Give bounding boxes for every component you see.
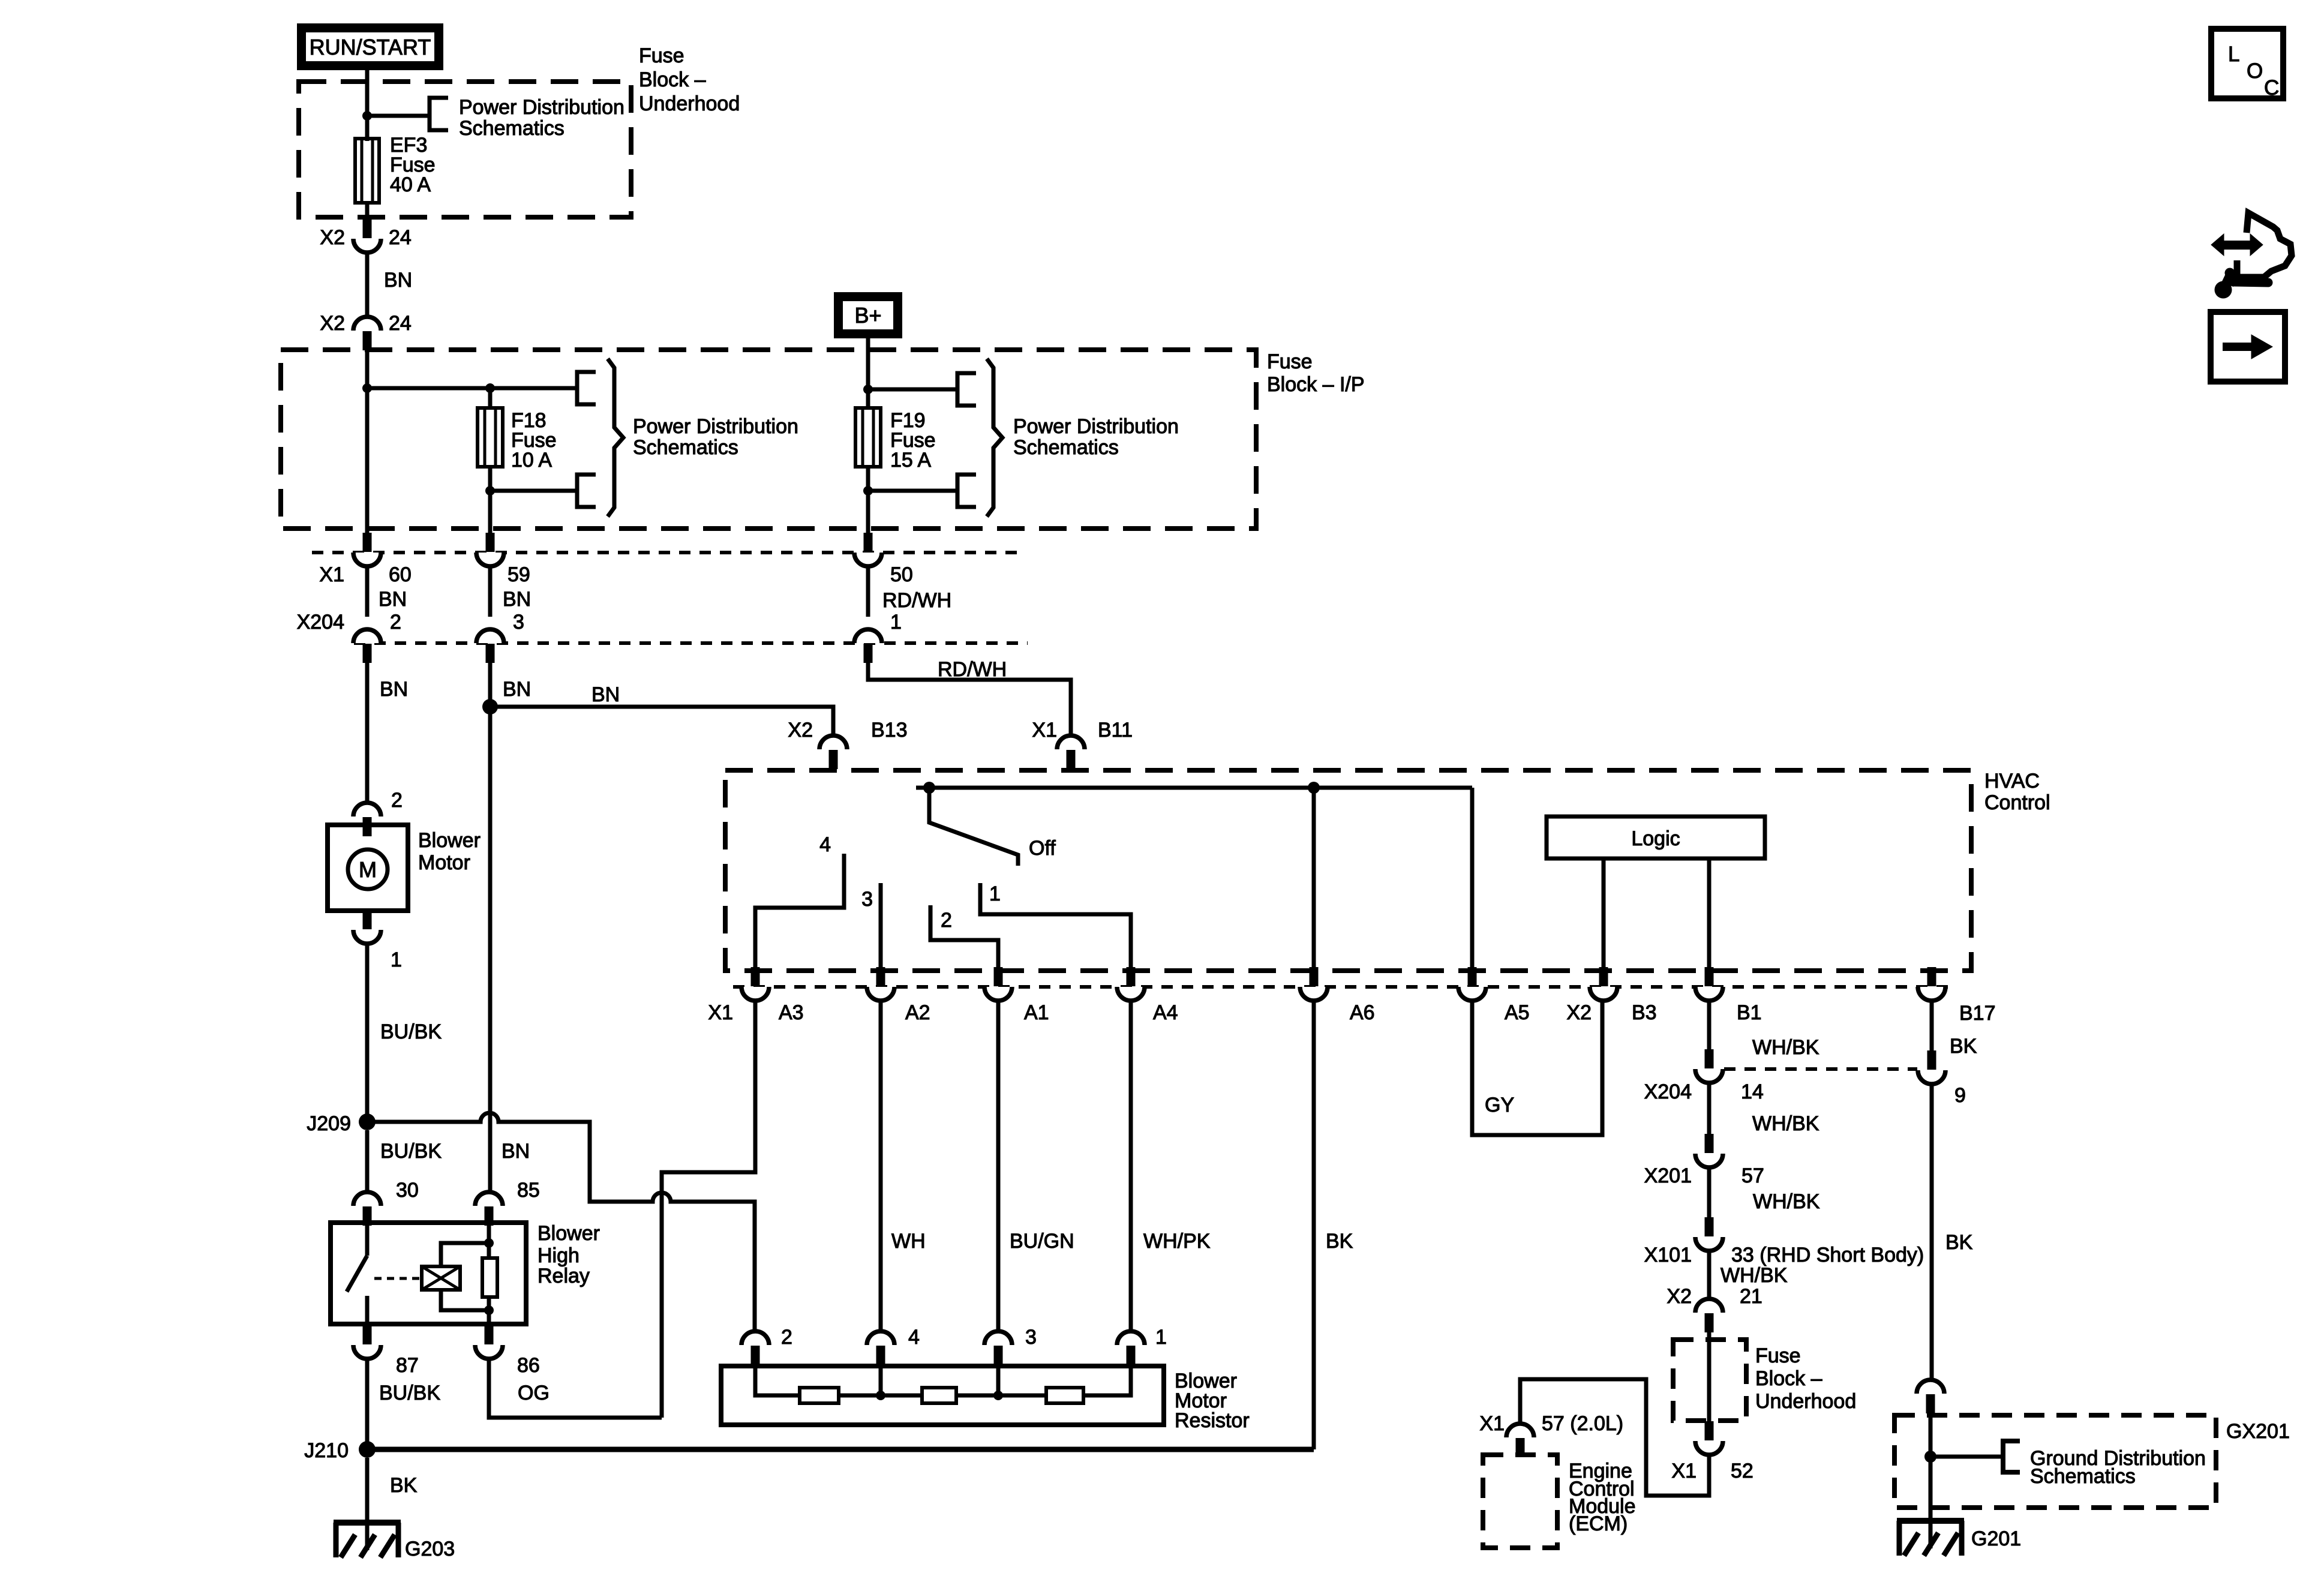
wire into fuse block I/P bbox=[365, 350, 370, 388]
svg-text:BU/BK: BU/BK bbox=[380, 1020, 442, 1043]
svg-text:1: 1 bbox=[1155, 1326, 1167, 1349]
resistor internal wiring bbox=[755, 1365, 800, 1395]
node BN branch to B13 bbox=[482, 699, 498, 715]
wire BN from X204-3 down to relay 85 bbox=[488, 663, 493, 1193]
svg-text:40 A: 40 A bbox=[390, 173, 431, 196]
HVAC control dashed box bbox=[725, 770, 1971, 971]
wire RD/WH to HVAC B11 bbox=[868, 663, 1071, 737]
wire RUN/START to EF3 bbox=[365, 66, 370, 141]
svg-text:60: 60 bbox=[389, 563, 412, 586]
blower motor resistor box bbox=[721, 1366, 1164, 1425]
wire WH/BK B1 to X204-14 bbox=[1707, 1001, 1712, 1050]
switch wiper to Off bbox=[929, 788, 1018, 866]
svg-text:2: 2 bbox=[390, 611, 401, 634]
svg-text:Relay: Relay bbox=[538, 1265, 590, 1287]
svg-text:L: L bbox=[2228, 43, 2239, 66]
wire to X2-21 bbox=[1707, 1251, 1712, 1300]
svg-text:BN: BN bbox=[502, 1140, 530, 1163]
svg-text:X1: X1 bbox=[1032, 719, 1057, 742]
svg-text:Motor: Motor bbox=[418, 851, 470, 874]
svg-text:57 (2.0L): 57 (2.0L) bbox=[1542, 1412, 1623, 1435]
connector X204-1 bbox=[854, 629, 882, 643]
svg-text:1: 1 bbox=[391, 948, 402, 971]
wire left column through I/P box bbox=[365, 388, 370, 535]
svg-text:A3: A3 bbox=[779, 1001, 804, 1024]
node pin 3 bbox=[996, 1365, 1001, 1395]
bracket F18 upper bbox=[577, 372, 596, 404]
svg-text:Fuse: Fuse bbox=[639, 44, 684, 67]
HVAC bottom connector row dotted line bbox=[733, 985, 1948, 989]
svg-text:3: 3 bbox=[513, 611, 524, 634]
svg-text:59: 59 bbox=[508, 563, 530, 586]
wire inside GX201 bbox=[1929, 1413, 1933, 1524]
svg-text:2: 2 bbox=[391, 789, 403, 812]
svg-text:BN: BN bbox=[503, 678, 531, 701]
bracket F19 upper bbox=[957, 373, 976, 406]
connector X2-B3 bbox=[1590, 987, 1617, 1001]
connector X2-B13 bbox=[819, 736, 847, 749]
wire BU/BK J209 to relay 30 bbox=[365, 1130, 370, 1193]
connector X204-2 bbox=[353, 629, 381, 643]
svg-text:Blower: Blower bbox=[538, 1222, 600, 1245]
connector X204-14 bbox=[1695, 1069, 1723, 1083]
svg-text:2: 2 bbox=[781, 1326, 792, 1349]
node F19 top bbox=[863, 385, 873, 394]
fuse F19 15 A bbox=[866, 389, 870, 409]
svg-text:BN: BN bbox=[379, 588, 407, 611]
wire OG 86 to A3 wire bbox=[489, 1359, 662, 1418]
switch position 2 wire to A1 bbox=[930, 905, 998, 972]
svg-text:Fuse: Fuse bbox=[1755, 1344, 1801, 1367]
svg-text:Logic: Logic bbox=[1631, 827, 1680, 850]
connector A2 bbox=[867, 987, 894, 1001]
svg-text:2: 2 bbox=[941, 909, 952, 932]
svg-text:GY: GY bbox=[1485, 1094, 1514, 1116]
junction J209 bbox=[359, 1113, 376, 1130]
svg-text:A4: A4 bbox=[1153, 1001, 1178, 1024]
svg-text:87: 87 bbox=[396, 1354, 419, 1377]
svg-text:X1: X1 bbox=[708, 1001, 733, 1024]
wire 59 BN bbox=[488, 566, 493, 617]
connector relay 85 bbox=[475, 1192, 503, 1206]
svg-text:BN: BN bbox=[384, 269, 412, 292]
svg-text:X201: X201 bbox=[1644, 1164, 1692, 1187]
junction J210 bbox=[359, 1441, 376, 1458]
svg-text:Schematics: Schematics bbox=[2030, 1465, 2136, 1488]
wire BK A6 to J210 bbox=[1312, 1001, 1316, 1449]
connector into GX201 bbox=[1917, 1380, 1944, 1394]
svg-text:GX201: GX201 bbox=[2226, 1420, 2290, 1443]
svg-text:1: 1 bbox=[989, 882, 1001, 905]
svg-text:J210: J210 bbox=[304, 1439, 349, 1462]
ground distribution GX201 dashed box bbox=[1894, 1415, 2216, 1508]
fuse block I/P dashed box bbox=[281, 350, 1256, 529]
connector A6 bbox=[1300, 987, 1328, 1001]
fuse block underhood small dashed box bbox=[1673, 1340, 1746, 1421]
wire BK B17 to X204-9 bbox=[1930, 1001, 1934, 1051]
svg-text:X2: X2 bbox=[1566, 1001, 1592, 1024]
svg-text:BU/BK: BU/BK bbox=[380, 1140, 442, 1163]
svg-text:(ECM): (ECM) bbox=[1569, 1512, 1628, 1535]
connector A4 bbox=[1117, 987, 1145, 1001]
next page arrow box bbox=[2211, 312, 2285, 382]
connector A5 bbox=[1458, 987, 1486, 1001]
connector X2-24 upper half bbox=[353, 239, 381, 253]
svg-text:BU/BK: BU/BK bbox=[379, 1382, 440, 1404]
node tap to power distribution bbox=[362, 111, 372, 121]
switch position 4 wire to A3 bbox=[755, 854, 844, 972]
svg-text:Off: Off bbox=[1029, 837, 1056, 860]
node bus left bbox=[362, 383, 372, 393]
svg-text:Power Distribution: Power Distribution bbox=[459, 96, 624, 119]
wire BU/BK motor to J209 bbox=[365, 944, 370, 1116]
connector motor pin 1 bbox=[353, 930, 381, 944]
svg-text:BK: BK bbox=[1950, 1035, 1977, 1058]
ground G203 bbox=[365, 1458, 370, 1550]
wire F18 down to connector 59 bbox=[488, 491, 493, 535]
wire BN between X2 connectors bbox=[365, 253, 370, 318]
svg-text:RUN/START: RUN/START bbox=[310, 35, 431, 59]
connector X1-B11 bbox=[1057, 736, 1085, 749]
svg-text:B3: B3 bbox=[1632, 1001, 1657, 1024]
svg-text:X2: X2 bbox=[788, 719, 813, 742]
wire 60 BN bbox=[365, 566, 370, 617]
svg-text:BK: BK bbox=[1945, 1231, 1973, 1254]
power source box RUN/START bbox=[302, 28, 439, 66]
wire BU/BK 87 to J210 bbox=[365, 1359, 370, 1443]
wire logic to B1 bbox=[1707, 858, 1712, 972]
svg-text:Power Distribution: Power Distribution bbox=[1013, 415, 1179, 438]
svg-text:B17: B17 bbox=[1959, 1002, 1996, 1025]
svg-text:Underhood: Underhood bbox=[1755, 1390, 1856, 1413]
connector B17 bbox=[1918, 987, 1945, 1001]
svg-text:3: 3 bbox=[861, 888, 873, 911]
connector relay 30 bbox=[353, 1192, 381, 1206]
connector X1-60 bbox=[353, 553, 381, 566]
relay coil bbox=[422, 1266, 460, 1290]
svg-text:Block –: Block – bbox=[639, 68, 706, 91]
connector X204-9 bbox=[1918, 1070, 1945, 1084]
node switch common bbox=[923, 782, 935, 794]
svg-text:57: 57 bbox=[1742, 1164, 1764, 1187]
wire BN branch to HVAC B13 bbox=[490, 707, 833, 737]
fuse F18 10 A bbox=[488, 388, 493, 409]
svg-text:Power Distribution: Power Distribution bbox=[633, 415, 798, 438]
svg-text:30: 30 bbox=[396, 1179, 419, 1202]
wire BK J210 to G203 bbox=[365, 1458, 370, 1524]
svg-text:50: 50 bbox=[890, 563, 913, 586]
svg-text:Blower: Blower bbox=[418, 829, 481, 852]
svg-text:BN: BN bbox=[503, 588, 531, 611]
wire bus down to A5 bbox=[1470, 788, 1475, 972]
svg-text:B11: B11 bbox=[1098, 719, 1133, 742]
wire GY A5 to B3 bbox=[1472, 1001, 1602, 1135]
svg-text:X1: X1 bbox=[319, 563, 344, 586]
wire F18 lower tap bbox=[490, 489, 577, 493]
svg-text:RD/WH: RD/WH bbox=[882, 589, 951, 612]
relay coil branch wires bbox=[441, 1243, 489, 1266]
svg-text:4: 4 bbox=[908, 1326, 920, 1349]
connector X1-52 bbox=[1695, 1441, 1723, 1455]
relay switch contact lower bbox=[365, 1296, 370, 1324]
svg-text:Schematics: Schematics bbox=[633, 436, 738, 459]
svg-text:X2: X2 bbox=[1667, 1285, 1692, 1308]
wire A3 to relay coil (4th speed) bbox=[662, 1001, 755, 1418]
node pin 4 bbox=[879, 1365, 883, 1395]
wire WH/PK A4 to resistor 1 bbox=[1129, 1001, 1133, 1332]
resistor element 3 bbox=[1046, 1388, 1083, 1403]
brace F19 power distribution bbox=[987, 359, 1002, 517]
svg-text:BN: BN bbox=[380, 678, 408, 701]
wire through fuse block bbox=[1707, 1332, 1712, 1422]
relay actuation dashed link bbox=[374, 1277, 420, 1280]
svg-text:Block –: Block – bbox=[1755, 1367, 1822, 1390]
connector X1-50 bbox=[854, 553, 882, 566]
dotted line X204 row right bbox=[1724, 1067, 1917, 1071]
connector resistor pin 2 bbox=[741, 1331, 769, 1345]
svg-text:Schematics: Schematics bbox=[1013, 436, 1119, 459]
fuse EF3 40 A bbox=[355, 139, 379, 203]
wire BU/GN A1 to resistor 3 bbox=[996, 1001, 1001, 1332]
svg-text:15 A: 15 A bbox=[890, 449, 931, 472]
svg-text:X1: X1 bbox=[1479, 1412, 1505, 1435]
svg-text:O: O bbox=[2247, 59, 2263, 83]
wire BN to blower motor bbox=[365, 663, 370, 804]
svg-text:OG: OG bbox=[518, 1382, 550, 1404]
svg-text:A1: A1 bbox=[1024, 1001, 1049, 1024]
svg-text:Schematics: Schematics bbox=[459, 117, 565, 140]
svg-text:B13: B13 bbox=[871, 719, 908, 742]
connector X204-3 bbox=[476, 629, 504, 643]
bracket ground distribution schematics bbox=[2003, 1441, 2020, 1472]
svg-text:Resistor: Resistor bbox=[1175, 1409, 1250, 1432]
svg-text:M: M bbox=[359, 857, 377, 882]
svg-text:Block – I/P: Block – I/P bbox=[1267, 373, 1365, 396]
svg-text:BU/GN: BU/GN bbox=[1010, 1230, 1074, 1253]
wire J209 to resistor pin 2 with hops bbox=[367, 1113, 755, 1332]
svg-text:14: 14 bbox=[1741, 1080, 1764, 1103]
svg-text:WH/BK: WH/BK bbox=[1752, 1112, 1819, 1135]
wire EF3 to connector X2-24 bbox=[365, 203, 370, 221]
svg-text:Underhood: Underhood bbox=[639, 92, 740, 115]
svg-text:A6: A6 bbox=[1350, 1001, 1375, 1024]
svg-text:BK: BK bbox=[1326, 1230, 1353, 1253]
svg-text:10 A: 10 A bbox=[511, 449, 552, 472]
svg-text:WH/BK: WH/BK bbox=[1752, 1036, 1819, 1059]
wire tap to bracket bbox=[367, 114, 430, 118]
svg-text:X204: X204 bbox=[297, 611, 344, 634]
connector X1-59 bbox=[476, 553, 504, 566]
wire F19 down to connector 50 bbox=[866, 491, 870, 535]
connector X201-57 bbox=[1695, 1154, 1723, 1167]
connector B1 bbox=[1695, 987, 1723, 1001]
blower high relay box bbox=[331, 1223, 526, 1324]
relay switch contact upper bbox=[365, 1223, 370, 1256]
bracket power distribution schematics bbox=[430, 98, 448, 130]
connector relay 86 bbox=[475, 1345, 503, 1359]
wire WH A2 to resistor 4 bbox=[879, 1001, 883, 1332]
svg-text:WH: WH bbox=[891, 1230, 926, 1253]
connector row X204 dotted line bbox=[354, 641, 1028, 645]
svg-text:X101: X101 bbox=[1644, 1244, 1692, 1266]
wire BK down to ground connector bbox=[1930, 1084, 1934, 1380]
connector X2-21 bbox=[1695, 1299, 1723, 1313]
svg-text:A2: A2 bbox=[905, 1001, 930, 1024]
switch position 1 wire to A4 bbox=[980, 883, 1131, 972]
LOC legend box bbox=[2211, 29, 2283, 98]
svg-text:24: 24 bbox=[389, 226, 412, 249]
logic box bbox=[1547, 816, 1765, 858]
svg-text:X204: X204 bbox=[1644, 1080, 1692, 1103]
motor symbol M bbox=[348, 849, 388, 889]
svg-text:3: 3 bbox=[1025, 1326, 1037, 1349]
svg-text:Control: Control bbox=[1984, 791, 2050, 814]
node ground tap bbox=[1924, 1451, 1936, 1463]
svg-text:1: 1 bbox=[890, 611, 902, 634]
switch position 3 wire to A2 bbox=[879, 883, 883, 972]
connector row X1 dotted line bbox=[312, 551, 1020, 554]
switch common bus bbox=[916, 786, 1472, 790]
connector resistor pin 4 bbox=[867, 1331, 894, 1345]
svg-text:RD/WH: RD/WH bbox=[938, 658, 1007, 681]
svg-text:BN: BN bbox=[591, 683, 620, 706]
blower motor box bbox=[328, 825, 408, 911]
ground G201 bbox=[1929, 1508, 1933, 1548]
resistor element 2 bbox=[922, 1388, 956, 1403]
svg-text:WH/PK: WH/PK bbox=[1143, 1230, 1211, 1253]
connector resistor pin 1 bbox=[1117, 1331, 1145, 1345]
wire bus to F19 bracket bbox=[868, 388, 957, 392]
connector motor pin 2 bbox=[353, 803, 381, 816]
connector X2-24 lower half bbox=[353, 317, 381, 331]
svg-text:33 (RHD Short Body): 33 (RHD Short Body) bbox=[1731, 1244, 1924, 1266]
svg-text:52: 52 bbox=[1731, 1460, 1753, 1482]
wire bus down to A6 bbox=[1312, 788, 1316, 972]
svg-text:X2: X2 bbox=[320, 226, 345, 249]
node F19 bottom bbox=[866, 467, 870, 491]
svg-text:C: C bbox=[2264, 76, 2279, 100]
brace F18 power distribution bbox=[608, 359, 623, 517]
wire F19 lower tap bbox=[868, 489, 957, 493]
svg-text:24: 24 bbox=[389, 312, 412, 335]
wire B+ into I/P box bbox=[866, 338, 870, 390]
icon vehicle with arrow and wrench bbox=[2211, 234, 2224, 256]
wire to X201 bbox=[1707, 1083, 1712, 1134]
connector ECM X1-57 bbox=[1506, 1424, 1534, 1437]
connector resistor pin 3 bbox=[984, 1331, 1012, 1345]
svg-text:WH/BK: WH/BK bbox=[1721, 1264, 1788, 1287]
wire logic to B3 bbox=[1602, 858, 1606, 972]
node F18 top bbox=[485, 383, 495, 393]
wire to ground bracket bbox=[1930, 1455, 2003, 1459]
svg-text:X2: X2 bbox=[320, 312, 345, 335]
svg-text:B+: B+ bbox=[854, 303, 881, 328]
svg-text:X1: X1 bbox=[1671, 1460, 1697, 1482]
node coil bottom bbox=[484, 1305, 494, 1315]
node coil top bbox=[484, 1238, 494, 1248]
wire to X101 bbox=[1707, 1167, 1712, 1218]
svg-text:86: 86 bbox=[517, 1354, 540, 1377]
svg-text:High: High bbox=[538, 1244, 580, 1267]
connector X1-A3 bbox=[741, 987, 769, 1001]
battery feed box B+ bbox=[839, 297, 898, 334]
svg-text:J209: J209 bbox=[307, 1112, 351, 1135]
svg-text:9: 9 bbox=[1954, 1084, 1966, 1107]
svg-text:B1: B1 bbox=[1737, 1001, 1762, 1024]
wire BK J210 to A6 bbox=[367, 1447, 1314, 1452]
svg-text:4: 4 bbox=[819, 833, 831, 856]
connector relay 87 bbox=[353, 1345, 381, 1359]
bracket F18 lower bbox=[577, 475, 596, 507]
connector X101-33 bbox=[1695, 1237, 1723, 1251]
node F18 bottom bbox=[488, 467, 493, 491]
relay switch blade bbox=[347, 1256, 367, 1292]
connector A1 bbox=[984, 987, 1012, 1001]
wire bus to F18 bbox=[367, 386, 577, 391]
node A6 branch bbox=[1308, 782, 1320, 794]
wire 50 RD/WH bbox=[866, 566, 870, 617]
svg-text:G203: G203 bbox=[405, 1538, 455, 1560]
svg-text:BK: BK bbox=[390, 1474, 418, 1497]
svg-text:WH/BK: WH/BK bbox=[1753, 1190, 1820, 1213]
svg-text:A5: A5 bbox=[1505, 1001, 1530, 1024]
svg-text:21: 21 bbox=[1740, 1285, 1762, 1308]
svg-text:85: 85 bbox=[517, 1179, 540, 1202]
engine control module dashed box bbox=[1483, 1455, 1557, 1548]
wire X1-52 to ECM bbox=[1520, 1379, 1709, 1496]
fuse block underhood dashed box bbox=[299, 82, 631, 217]
relay internal resistor bbox=[487, 1223, 491, 1258]
svg-text:Fuse: Fuse bbox=[1267, 350, 1313, 373]
bracket F19 lower bbox=[957, 475, 976, 507]
svg-text:HVAC: HVAC bbox=[1984, 770, 2040, 792]
resistor element 1 bbox=[800, 1388, 839, 1403]
svg-text:G201: G201 bbox=[1971, 1527, 2021, 1550]
